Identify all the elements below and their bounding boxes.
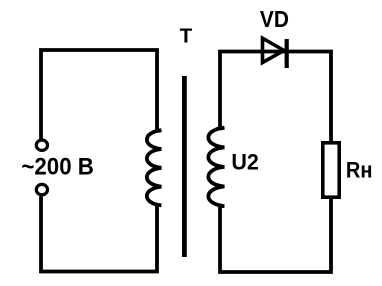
transformer core T bbox=[182, 76, 187, 257]
diode VD triangle bbox=[263, 38, 285, 62]
svg-text:U2: U2 bbox=[231, 150, 259, 175]
svg-text:Rн: Rн bbox=[346, 158, 373, 183]
transformer secondary winding U2 bbox=[208, 128, 224, 206]
svg-text:VD: VD bbox=[260, 6, 289, 32]
terminal node: lower input terminal bbox=[36, 184, 47, 194]
resistor RH body bbox=[323, 143, 339, 197]
terminal node: upper input terminal bbox=[36, 140, 47, 150]
wire: secondary loop (left side with winding, top, right, bottom) bbox=[220, 52, 331, 273]
diode VD cathode bar bbox=[285, 39, 289, 68]
svg-text:T: T bbox=[180, 25, 193, 48]
svg-text:~200 В: ~200 В bbox=[21, 154, 94, 181]
wire: primary loop (top, left-upper, right side with winding, bottom, left-lower) bbox=[41, 50, 161, 272]
